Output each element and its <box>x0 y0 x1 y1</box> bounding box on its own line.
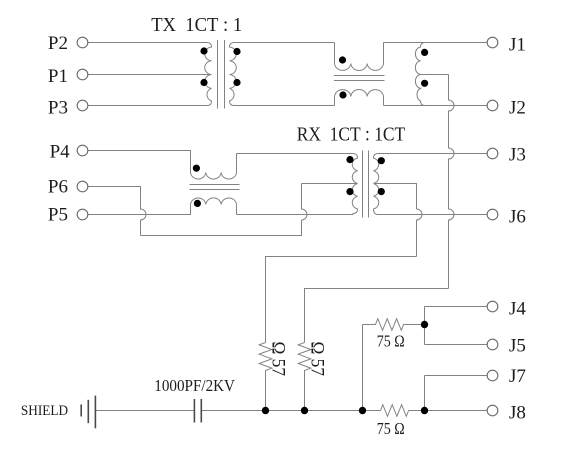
wire T2 secondary center tap to x416 vertical <box>374 184 417 210</box>
choke L1 core <box>334 76 385 81</box>
resistor R1 75ohm (vertical) <box>259 343 272 411</box>
svg-text:P6: P6 <box>48 177 68 198</box>
dot W4 upper <box>421 49 428 56</box>
wire x301 to T2 primary center tap <box>302 183 358 185</box>
pin P2 <box>77 37 88 48</box>
junction dot bus at R2 <box>301 407 308 414</box>
choke L2 core <box>190 185 240 190</box>
wire choke L1 bottom to J2 <box>384 105 488 107</box>
svg-text:P3: P3 <box>48 98 68 119</box>
svg-text:P1: P1 <box>48 66 68 87</box>
wire J7 tie vertical <box>424 376 426 411</box>
wire R3 left lead vertical x362 <box>362 325 364 411</box>
resistor R4 75ohm (horizontal, in bus) <box>381 405 409 417</box>
transformer T2 core <box>363 151 369 218</box>
wire P4 to choke L2 <box>88 151 191 173</box>
transformer T2 secondary winding <box>374 154 379 215</box>
svg-text:J3: J3 <box>509 145 526 166</box>
pin J5 <box>487 339 498 350</box>
phase dots <box>193 47 428 414</box>
svg-text:J6: J6 <box>509 207 526 228</box>
wire y256 to resistor R1 <box>266 257 417 343</box>
pin J2 <box>487 100 498 111</box>
wire choke L2 bottom to T2 primary bottom <box>237 214 354 216</box>
svg-text:J2: J2 <box>509 98 526 119</box>
junction dot bus at R1 <box>262 407 269 414</box>
wire J4/J5 tie vertical <box>424 307 426 345</box>
pin J7 <box>487 370 498 381</box>
svg-text:J5: J5 <box>509 336 526 357</box>
dot W4 lower <box>421 80 428 87</box>
dot choke L1 bottom <box>339 91 346 98</box>
wire W4 center tap to x448 vertical <box>421 74 449 76</box>
svg-text:75 Ω: 75 Ω <box>377 419 405 438</box>
resistor R2 75ohm (vertical) <box>298 343 311 411</box>
svg-text:P2: P2 <box>48 33 68 54</box>
dot choke L1 top <box>339 56 346 63</box>
wire T1 secondary bottom to choke L1 <box>234 105 335 107</box>
port circles <box>77 37 498 416</box>
svg-text:SHIELD: SHIELD <box>21 403 68 419</box>
choke L1 top winding <box>335 43 384 71</box>
wire x448 vertical with hops over J2, J3, J6 lines <box>449 75 455 289</box>
transformer T1 core <box>218 40 225 109</box>
wire x416 vertical hop over J6 line, down to y256 <box>417 209 423 257</box>
wire T2 secondary top to J3 <box>378 153 487 155</box>
dot choke L2 bottom <box>194 200 201 207</box>
wire T2 secondary bottom to J6 <box>378 214 487 216</box>
pin P3 <box>77 100 88 111</box>
pin P6 <box>77 181 88 192</box>
pin J4 <box>487 301 498 312</box>
bus wire from capacitor to R4 <box>202 410 381 412</box>
svg-text:Ω 57: Ω 57 <box>306 342 327 377</box>
transformer T1 secondary winding <box>230 43 237 106</box>
transformer T2 primary winding (RX) <box>352 154 357 215</box>
wire P1 to T1 primary center tap <box>88 74 212 76</box>
svg-text:TX 1CT : 1: TX 1CT : 1 <box>151 14 242 36</box>
svg-text:1000PF/2KV: 1000PF/2KV <box>154 376 235 395</box>
svg-text:RX 1CT : 1CT: RX 1CT : 1CT <box>297 124 406 146</box>
pin J3 <box>487 148 498 159</box>
pin P1 <box>77 69 88 80</box>
wire to J4 <box>425 306 488 308</box>
wire x301 vertical with hop over choke-T2 line <box>302 184 308 221</box>
svg-text:75 Ω: 75 Ω <box>377 332 405 351</box>
wire P6 to x140 vertical with hop over P5 line <box>88 187 147 236</box>
wire choke L2 top to T2 primary top <box>237 153 354 155</box>
dot T2 primary lower <box>346 188 353 195</box>
svg-text:J1: J1 <box>509 35 526 56</box>
bus wire R4 to J8 <box>409 410 488 412</box>
pin J6 <box>487 209 498 220</box>
choke L1 bottom winding <box>335 90 384 106</box>
pin J1 <box>487 37 498 48</box>
choke L2 top winding <box>191 154 237 180</box>
dot choke L2 top <box>193 165 200 172</box>
wire P5 to choke L2 bottom <box>88 205 191 215</box>
svg-text:J4: J4 <box>509 299 526 320</box>
wire to J7 <box>425 375 488 377</box>
pin J8 <box>487 405 498 416</box>
dot T1 secondary lower <box>233 79 240 86</box>
wire y288 to resistor R2 <box>305 289 449 343</box>
junction dot bus at R3 lead <box>359 407 366 414</box>
capacitor C1 plates <box>194 399 201 423</box>
ground symbol (chassis, 3 bars) <box>81 396 95 429</box>
pin P4 <box>77 145 88 156</box>
svg-text:J8: J8 <box>509 403 526 424</box>
resistor R3 75ohm (horizontal) <box>363 319 425 331</box>
svg-text:P4: P4 <box>50 142 71 163</box>
wire P3 to T1 primary bottom <box>88 105 208 107</box>
pin P5 <box>77 209 88 220</box>
dot T1 secondary upper <box>233 48 240 55</box>
junction dot bus at J8 <box>421 407 428 414</box>
choke L2 bottom winding <box>191 198 237 215</box>
svg-text:J7: J7 <box>509 366 526 387</box>
junction dot R3 right / J4J5 tie <box>421 321 428 328</box>
wire P2 to T1 primary top <box>88 42 208 44</box>
bus wire from ground to capacitor <box>95 410 194 412</box>
dot T2 primary upper <box>346 156 353 163</box>
wire T1 secondary top to choke L1 <box>234 42 335 44</box>
dot T1 primary upper <box>200 47 207 54</box>
winding W4 across J1/J2 (center-tapped) <box>415 43 425 106</box>
transformer T1 primary winding (TX, center-tapped) <box>205 43 212 106</box>
dot T2 secondary upper <box>378 157 385 164</box>
dot T1 primary lower <box>200 79 207 86</box>
svg-text:Ω 57: Ω 57 <box>267 342 288 377</box>
wire choke L1 top to J1 <box>384 42 488 44</box>
wire to J5 <box>425 344 488 346</box>
dot T2 secondary lower <box>378 188 385 195</box>
svg-text:P5: P5 <box>48 205 68 226</box>
wire y235 from x140 to x301 <box>141 220 302 236</box>
